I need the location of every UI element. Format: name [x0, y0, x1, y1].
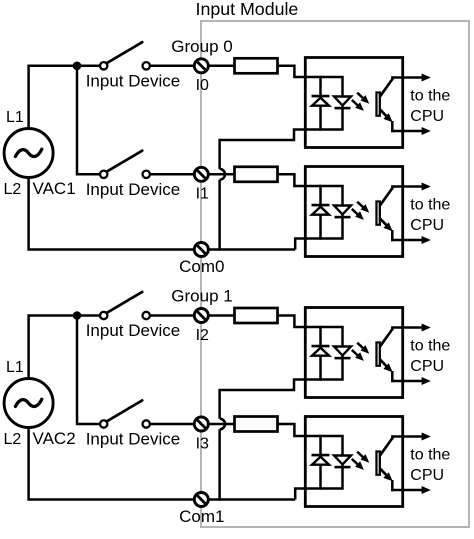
svg-text:to the: to the — [410, 446, 450, 463]
optocoupler U1 LED loop wiring — [321, 77, 343, 130]
wire resistor R2 to optocoupler U2 — [278, 174, 322, 186]
optocoupler U1 LED D1b — [334, 97, 351, 106]
svg-text:Input Device: Input Device — [86, 430, 181, 449]
svg-text:I1: I1 — [196, 186, 209, 203]
optocoupler U4 box — [305, 417, 402, 507]
wire L2 from VAC1 to common row — [29, 177, 296, 250]
optocoupler U2 LED loop wiring — [321, 186, 343, 239]
svg-text:L2: L2 — [4, 431, 22, 448]
node junction dot on top row — [73, 62, 82, 71]
wire optocoupler U4 return to Com1 — [295, 489, 321, 500]
output wire to CPU collector side of U2 — [391, 185, 423, 188]
optocoupler U4 LED loop wiring — [321, 436, 343, 489]
optocoupler U3 LED loop wiring — [321, 327, 343, 380]
output wire to CPU emitter side of U3 — [391, 380, 423, 383]
resistor R4 — [235, 417, 278, 432]
svg-text:I3: I3 — [196, 435, 209, 452]
optocoupler U4 light emission arrows — [357, 452, 364, 459]
phototransistor Q4 collector — [380, 437, 393, 455]
svg-text:Group 1: Group 1 — [171, 287, 232, 306]
wire junction rail to second input device — [77, 316, 100, 425]
wire L2 from VAC2 to common row — [29, 427, 296, 500]
wire switch S2 to terminal I1 and resistor R2 — [150, 173, 237, 176]
svg-text:I2: I2 — [196, 327, 209, 344]
input device switch S4 — [100, 420, 107, 427]
terminal Com0 — [194, 243, 208, 257]
optocoupler U2 LED D2b — [334, 206, 351, 215]
terminal I1 — [194, 167, 208, 181]
svg-text:L2: L2 — [4, 181, 22, 198]
svg-text:VAC2: VAC2 — [33, 429, 76, 448]
vertical rail to Com0 with hop over I1 wire — [218, 139, 221, 169]
svg-text:to the: to the — [410, 196, 450, 213]
wire resistor R3 to optocoupler U3 — [278, 316, 322, 328]
phototransistor Q2 collector — [380, 187, 393, 205]
terminal I0 — [194, 59, 208, 73]
wire optocoupler U2 return to Com0 — [295, 239, 321, 250]
input device switch S1 — [100, 62, 107, 69]
svg-text:Input Device: Input Device — [86, 71, 181, 90]
svg-text:Group 0: Group 0 — [171, 37, 232, 56]
svg-text:Input Device: Input Device — [86, 321, 181, 340]
svg-text:L1: L1 — [6, 359, 24, 376]
svg-text:I0: I0 — [196, 77, 209, 94]
terminal I3 — [194, 417, 208, 431]
wire optocoupler U1 return to common rail — [220, 130, 322, 141]
svg-text:Input Module: Input Module — [196, 0, 299, 19]
svg-text:Com1: Com1 — [179, 507, 224, 526]
output wire to CPU emitter side of U4 — [391, 489, 423, 492]
optocoupler U3 LED D3a — [312, 345, 330, 348]
svg-text:Input Device: Input Device — [86, 180, 181, 199]
AC source VAC2 — [4, 379, 53, 428]
phototransistor Q4 emitter with arrow — [380, 469, 387, 476]
input device switch S2 — [100, 171, 107, 178]
wire resistor R4 to optocoupler U4 — [278, 424, 322, 436]
optocoupler U4 LED D4a — [312, 454, 330, 457]
resistor R1 — [235, 58, 278, 73]
optocoupler U1 light emission arrows — [357, 93, 364, 100]
vertical rail to Com1 with hop over I3 wire — [218, 389, 221, 419]
AC source VAC1 — [4, 129, 53, 178]
terminal Com1 — [194, 493, 208, 507]
optocoupler U4 LED D4b — [334, 456, 351, 465]
wire switch S4 to terminal I3 and resistor R4 — [150, 423, 237, 426]
terminal I2 — [194, 309, 208, 323]
phototransistor Q3 base bar — [376, 342, 380, 365]
wire switch S1 to terminal I0 and resistor R1 — [150, 65, 237, 68]
wire junction rail to second input device — [77, 66, 100, 175]
svg-text:L1: L1 — [6, 109, 24, 126]
optocoupler U1 box — [305, 58, 402, 148]
output wire to CPU collector side of U1 — [391, 76, 423, 79]
phototransistor Q4 base bar — [376, 451, 380, 474]
resistor R2 — [235, 167, 278, 182]
wire optocoupler U3 return to common rail — [220, 380, 322, 391]
optocoupler U2 light emission arrows — [357, 202, 364, 209]
svg-text:CPU: CPU — [410, 467, 444, 484]
phototransistor Q1 emitter with arrow — [380, 110, 387, 117]
phototransistor Q1 base bar — [376, 92, 380, 115]
input device switch S3 — [100, 312, 107, 319]
phototransistor Q1 collector — [380, 78, 393, 96]
svg-text:VAC1: VAC1 — [33, 179, 76, 198]
output wire to CPU collector side of U3 — [391, 326, 423, 329]
optocoupler U3 box — [305, 308, 402, 398]
wire L1 from VAC1 to top row — [29, 66, 100, 129]
phototransistor Q3 collector — [380, 328, 393, 346]
resistor R3 — [235, 308, 278, 323]
phototransistor Q3 emitter with arrow — [380, 360, 387, 367]
node junction dot on top row — [73, 311, 82, 320]
optocoupler U2 box — [305, 167, 402, 257]
svg-text:Com0: Com0 — [179, 257, 224, 276]
input module boundary box — [201, 21, 469, 527]
svg-text:CPU: CPU — [410, 108, 444, 125]
svg-text:CPU: CPU — [410, 358, 444, 375]
svg-text:CPU: CPU — [410, 217, 444, 234]
optocoupler U1 LED D1a — [312, 95, 330, 98]
phototransistor Q2 base bar — [376, 201, 380, 224]
output wire to CPU collector side of U4 — [391, 435, 423, 438]
output wire to CPU emitter side of U2 — [391, 239, 423, 242]
optocoupler U3 LED D3b — [334, 347, 351, 356]
svg-text:to the: to the — [410, 337, 450, 354]
wire L1 from VAC2 to top row — [29, 316, 100, 380]
optocoupler U3 light emission arrows — [357, 343, 364, 350]
svg-text:to the: to the — [410, 87, 450, 104]
wire switch S3 to terminal I2 and resistor R3 — [150, 314, 237, 317]
phototransistor Q2 emitter with arrow — [380, 219, 387, 226]
optocoupler U2 LED D2a — [312, 204, 330, 207]
wire resistor R1 to optocoupler U1 — [278, 66, 322, 77]
output wire to CPU emitter side of U1 — [391, 130, 423, 133]
